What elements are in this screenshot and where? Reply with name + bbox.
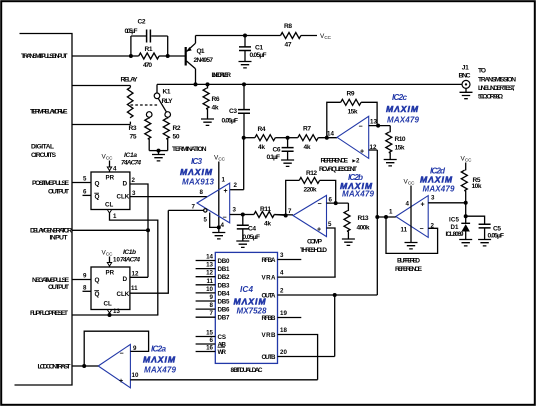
svg-text:TO: TO <box>478 68 486 75</box>
stub IC1a pin6 Qbar <box>83 194 92 196</box>
transistor Q1 2N4957 <box>185 47 187 66</box>
svg-text:0.05µF: 0.05µF <box>250 52 267 59</box>
stub RFBB <box>278 317 302 319</box>
junction IC2b pin7/R12 feedback <box>284 214 288 218</box>
svg-text:ΜΛΧΙΜ: ΜΛΧΙΜ <box>180 167 213 177</box>
ground C5 <box>478 240 491 246</box>
IC3 pin7 inversion bubble <box>204 209 207 212</box>
svg-text:LINE DRIVER: LINE DRIVER <box>212 72 232 79</box>
IC4 pin 16 WR <box>196 351 216 353</box>
ground D1 <box>459 240 472 246</box>
svg-text:DB5: DB5 <box>218 299 231 306</box>
svg-text:Q: Q <box>95 277 100 284</box>
svg-text:REFERENCE: REFERENCE <box>395 266 423 273</box>
svg-text:20: 20 <box>280 349 287 356</box>
svg-text:Q: Q <box>95 194 100 201</box>
wire FLIP-FLOP RESET <box>72 314 158 316</box>
resistor R1 <box>139 53 159 59</box>
svg-text:50Ω OR 93Ω: 50Ω OR 93Ω <box>478 93 504 100</box>
svg-text:MAX479: MAX479 <box>423 185 456 194</box>
op-amp IC3 triangle <box>197 183 230 223</box>
svg-text:1: 1 <box>389 209 393 216</box>
wire R12 feedback right <box>320 180 336 203</box>
op-amp IC2d triangle <box>396 196 428 238</box>
junction R3/R2 <box>157 149 161 153</box>
svg-text:15: 15 <box>206 330 213 337</box>
wire TRANSMIT PULSE INPUT <box>72 55 131 57</box>
wire IC2c pin12 down to OUTA net <box>376 150 378 295</box>
resistor R11 4k <box>254 212 274 218</box>
resistor R7 4k <box>298 135 318 141</box>
svg-text:19: 19 <box>280 310 287 317</box>
DAC IC4 MX7528 box <box>215 252 277 363</box>
svg-text:−: − <box>223 215 227 222</box>
wire VRB down to IC2a pin10 <box>278 335 318 380</box>
svg-text:470: 470 <box>143 62 152 69</box>
junction IC2a output/feedback <box>82 364 86 368</box>
wire VRA to IC2b pin5 <box>278 276 336 278</box>
svg-text:NEGATIVE PULSE: NEGATIVE PULSE <box>32 277 69 284</box>
svg-text:14: 14 <box>327 131 334 138</box>
svg-text:Q1: Q1 <box>197 48 205 55</box>
svg-text:CL: CL <box>105 202 113 209</box>
svg-text:10: 10 <box>132 372 139 379</box>
junction IC2b output/feedback <box>334 201 338 205</box>
wire R11 to IC2b pin7 <box>274 214 285 217</box>
wire IC2b output <box>327 202 349 204</box>
svg-text:VCC: VCC <box>102 250 114 257</box>
svg-text:PR: PR <box>106 270 115 277</box>
svg-text:VCC: VCC <box>214 155 226 162</box>
svg-text:8: 8 <box>83 285 87 292</box>
svg-text:OUTA: OUTA <box>262 292 277 299</box>
Q1 emitter arrow <box>187 47 192 52</box>
node C2/R1 left <box>129 54 133 58</box>
svg-text:IC3: IC3 <box>191 157 202 166</box>
svg-text:Q: Q <box>95 181 100 188</box>
svg-text:4: 4 <box>221 222 225 229</box>
svg-text:MAX479: MAX479 <box>144 366 177 375</box>
svg-text:11: 11 <box>401 227 408 234</box>
wire IC1a CLK stub <box>130 196 133 198</box>
svg-text:TRANSMIT PULSE INPUT: TRANSMIT PULSE INPUT <box>21 53 68 60</box>
svg-text:6: 6 <box>83 189 87 196</box>
resistor R10 15k <box>389 126 391 133</box>
svg-text:RELAY: RELAY <box>121 76 139 83</box>
junction R6/main line <box>206 82 210 86</box>
wire IC2b pin5 down to VRA <box>327 228 336 277</box>
wire IC3 pin8 output to IC1a CLK <box>133 196 207 198</box>
svg-text:−: − <box>318 201 322 208</box>
svg-text:74AC74: 74AC74 <box>120 257 140 264</box>
svg-text:CLK: CLK <box>117 291 130 298</box>
svg-text:CS: CS <box>218 334 227 341</box>
IC4 pin 6 A/B <box>196 343 216 345</box>
svg-text:8-BIT DUAL DAC: 8-BIT DUAL DAC <box>231 367 264 374</box>
junction IC3 pin3/C4/R11 <box>241 213 245 217</box>
svg-text:POSITIVE PULSE: POSITIVE PULSE <box>32 180 69 187</box>
IC1b CL bubble pin13 <box>107 310 111 314</box>
wire C3 to node row <box>243 113 245 138</box>
svg-text:1: 1 <box>113 213 117 220</box>
svg-text:−: − <box>359 123 363 130</box>
wire IC2c pin12 <box>369 149 378 151</box>
svg-text:MAX479: MAX479 <box>387 116 420 125</box>
wire top rail <box>196 35 281 37</box>
svg-text:4k: 4k <box>264 221 271 228</box>
junction Q1 emitter/main line <box>194 82 198 86</box>
wire R8 to Vcc <box>301 35 317 37</box>
ground C4 <box>236 241 249 247</box>
ground R13 <box>342 239 355 245</box>
svg-text:18: 18 <box>280 327 287 334</box>
wire OUTA to reference net <box>278 294 378 296</box>
svg-text:4k: 4k <box>258 144 265 151</box>
junction IC2c output/feedback <box>376 124 380 128</box>
wire IC1a CL pin1 to reset net <box>110 213 158 315</box>
wire main line to BNC <box>157 83 462 85</box>
svg-text:TRANSMISSION: TRANSMISSION <box>478 76 516 83</box>
wire LCD contrast to IC2a output <box>84 365 98 367</box>
svg-text:13: 13 <box>113 308 120 315</box>
wire IC3 pin7 to IC1b CLK chain <box>168 209 203 211</box>
Q1 lower lead <box>187 61 196 69</box>
svg-text:+: + <box>360 148 364 155</box>
svg-text:DB6: DB6 <box>218 307 231 314</box>
svg-text:14: 14 <box>206 254 213 261</box>
BNC connector J1 <box>462 80 470 88</box>
svg-text:9: 9 <box>210 294 214 301</box>
wire IC2a feedback pin9 to output <box>84 331 148 366</box>
wire relay coil bottom (TERM RELAY DRIVE) <box>72 124 130 126</box>
svg-text:RCVR QUIESCENT: RCVR QUIESCENT <box>319 166 357 173</box>
svg-text:3: 3 <box>431 195 435 202</box>
wire to R11 <box>243 214 254 216</box>
capacitor C5 <box>479 224 491 228</box>
svg-text:47: 47 <box>285 42 292 49</box>
junction C3/R4/IC3 pin2 <box>242 136 246 140</box>
ground IC3 <box>212 233 225 239</box>
svg-text:RLY: RLY <box>162 98 174 105</box>
junction reset/IC1b pin13 <box>108 313 112 317</box>
digital-circuits bus bracket <box>15 34 73 386</box>
svg-text:OUTPUT: OUTPUT <box>48 189 70 196</box>
svg-text:INPUT: INPUT <box>50 234 69 241</box>
svg-text:CIRCUITS: CIRCUITS <box>31 152 57 159</box>
svg-text:WR: WR <box>218 349 227 356</box>
wire IC3 pin3 to R11/C4 <box>230 214 243 216</box>
resistor R12 220k <box>299 177 319 183</box>
svg-text:DB3: DB3 <box>218 282 231 289</box>
svg-text:VCC: VCC <box>461 156 473 163</box>
resistor R2 50 <box>167 117 169 118</box>
svg-text:DB7: DB7 <box>218 315 231 322</box>
svg-text:0.05µF: 0.05µF <box>222 117 239 124</box>
svg-text:+: + <box>224 188 228 195</box>
IC4 pin 15 CS <box>196 336 216 338</box>
svg-text:LCD CONTRAST: LCD CONTRAST <box>38 363 72 370</box>
op-amp IC2c triangle <box>337 116 369 158</box>
junction C1/top rail <box>243 34 247 38</box>
IC1a PR bubble <box>107 167 111 171</box>
svg-text:+: + <box>421 202 425 209</box>
wire OUTB <box>278 356 335 358</box>
wire relay coil top <box>72 85 130 87</box>
ground IC2d pin11 <box>405 243 418 249</box>
wire C2 left leg <box>130 36 132 56</box>
svg-text:74AC74: 74AC74 <box>121 160 141 167</box>
svg-text:R9: R9 <box>347 91 355 98</box>
IC4 pin 11 DB3 <box>196 284 216 286</box>
svg-text:D: D <box>123 181 128 188</box>
wire LCD CONTRAST <box>72 365 84 367</box>
resistor R5 10k <box>465 163 467 171</box>
svg-text:2: 2 <box>234 182 238 189</box>
svg-text:VCC: VCC <box>102 154 114 161</box>
svg-text:−: − <box>120 351 124 358</box>
svg-text:R4: R4 <box>258 126 266 133</box>
svg-text:PR: PR <box>106 175 115 182</box>
svg-text:50: 50 <box>173 134 180 141</box>
svg-text:−: − <box>420 226 424 233</box>
svg-text:MAX479: MAX479 <box>342 190 375 199</box>
svg-text:CLK: CLK <box>117 194 130 201</box>
svg-text:12: 12 <box>206 270 213 277</box>
svg-text:5: 5 <box>204 217 208 224</box>
svg-text:R8: R8 <box>284 23 292 30</box>
ground termination resistors <box>152 155 165 161</box>
wire R1 to node <box>159 55 168 57</box>
svg-text:1: 1 <box>222 177 226 184</box>
svg-text:TERM RELAY DRIVE: TERM RELAY DRIVE <box>30 108 68 115</box>
svg-text:MAX913: MAX913 <box>182 178 215 187</box>
svg-text:D: D <box>123 276 128 283</box>
svg-text:DB2: DB2 <box>218 274 231 281</box>
wire IC1b pin10 PR <box>109 257 111 263</box>
svg-text:C4: C4 <box>248 226 256 233</box>
svg-text:VCC: VCC <box>404 179 416 186</box>
junction IC2d output/OUTA vertical <box>375 215 379 219</box>
wire IC2c output <box>369 125 391 127</box>
svg-text:3: 3 <box>132 190 136 197</box>
svg-text:ΜΛΧΙΜ: ΜΛΧΙΜ <box>420 175 453 185</box>
wire to C5 <box>466 216 485 224</box>
svg-text:15k: 15k <box>395 145 405 152</box>
wire node row <box>244 137 255 139</box>
svg-text:BNC: BNC <box>459 73 471 80</box>
wire R9 feedback right <box>361 102 377 125</box>
ground C1 <box>239 62 252 68</box>
wire IC2d output to OUTA net <box>377 216 396 218</box>
svg-text:7: 7 <box>210 310 214 317</box>
svg-text:R1: R1 <box>145 46 153 53</box>
junction R7/R9 feedback/IC2c pin14 <box>325 136 329 140</box>
IC4 pin 13 DB1 <box>196 268 216 270</box>
wire DELAY GENERATOR INPUT <box>72 229 148 231</box>
ground R10 <box>384 160 397 166</box>
svg-text:5: 5 <box>328 221 332 228</box>
diode D1 ICL8069 <box>461 222 470 224</box>
svg-text:DIGITAL: DIGITAL <box>31 144 54 151</box>
capacitor C4 0.05uF <box>242 215 244 226</box>
junction C3/main line <box>242 82 246 86</box>
svg-text:ΜΛΧΙΜ: ΜΛΧΙΜ <box>143 355 176 365</box>
svg-text:R13: R13 <box>358 215 369 222</box>
wire IC1b D <box>130 276 148 278</box>
svg-text:15k: 15k <box>348 108 358 115</box>
svg-text:THRESHOLD: THRESHOLD <box>300 247 327 254</box>
svg-text:C1: C1 <box>255 44 263 51</box>
svg-text:11: 11 <box>206 278 213 285</box>
svg-text:4: 4 <box>280 270 284 277</box>
wire IC3 pin5 to ground <box>210 213 219 228</box>
node C2/R1 right <box>166 54 170 58</box>
relay actuation dashed link <box>131 104 159 106</box>
svg-text:R6: R6 <box>212 96 220 103</box>
relay contact B (to R2) <box>165 112 171 118</box>
svg-text:IC2a: IC2a <box>151 345 166 354</box>
svg-text:R2: R2 <box>173 125 181 132</box>
relay contact A (to R3) <box>146 112 152 118</box>
svg-text:11: 11 <box>131 285 138 292</box>
relay armature <box>158 98 166 112</box>
wire Q1 to top rail <box>195 36 197 44</box>
svg-text:4k: 4k <box>304 144 311 151</box>
svg-text:8: 8 <box>210 302 214 309</box>
svg-text:BUFFERED: BUFFERED <box>397 258 420 265</box>
svg-text:220k: 220k <box>304 186 317 193</box>
svg-text:J1: J1 <box>462 65 469 72</box>
svg-text:IC4: IC4 <box>240 285 253 294</box>
stub IC1b pin8 Qbar <box>83 290 92 292</box>
IC4 pin 14 DB0 <box>196 260 216 262</box>
wire relay pole <box>156 84 158 93</box>
svg-text:400k: 400k <box>357 224 370 231</box>
Q1 upper lead <box>187 43 196 51</box>
IC4 pin 8 DB6 <box>196 308 216 310</box>
svg-text:7: 7 <box>192 204 196 211</box>
svg-text:COMP: COMP <box>307 239 323 246</box>
wire IC2d pin3 to reference node <box>428 202 466 204</box>
wire R9 feedback left <box>327 102 341 137</box>
wire OUTA to OUTB <box>334 295 336 357</box>
wire top rail to C1 <box>244 36 246 47</box>
stub RFBA <box>278 259 302 261</box>
svg-text:7: 7 <box>288 208 292 215</box>
svg-text:R10: R10 <box>395 136 406 143</box>
svg-text:10k: 10k <box>472 183 482 190</box>
svg-text:DB0: DB0 <box>218 258 231 265</box>
svg-text:VCC: VCC <box>320 33 332 40</box>
op-amp IC2b triangle <box>293 195 327 236</box>
svg-text:RFBA: RFBA <box>262 257 277 264</box>
svg-text:8: 8 <box>200 189 204 196</box>
capacitor C2 <box>147 30 151 43</box>
svg-text:10: 10 <box>206 286 213 293</box>
capacitor C1 <box>239 47 251 51</box>
svg-text:▸2: ▸2 <box>352 158 361 165</box>
resistor R6 4k <box>207 84 209 88</box>
junction delay-gen/D-chain <box>146 228 150 232</box>
capacitor C6 0.1uF <box>287 138 289 148</box>
svg-text:4: 4 <box>113 166 117 173</box>
wire Q1 to main line <box>195 69 197 85</box>
svg-text:C6: C6 <box>273 147 281 154</box>
svg-text:R3: R3 <box>129 125 137 132</box>
wire POSITIVE PULSE OUTPUT to IC1a pin5 <box>72 182 91 184</box>
svg-text:0.05µF: 0.05µF <box>125 28 138 35</box>
svg-text:ICL8069: ICL8069 <box>446 231 465 238</box>
wire node to Q1 base <box>168 55 185 57</box>
flip-flop IC1a 74AC74 box <box>91 172 130 210</box>
resistor R8 <box>281 33 301 39</box>
wire R12 feedback left <box>286 180 300 215</box>
svg-text:Q: Q <box>95 291 100 298</box>
wire NEGATIVE PULSE OUTPUT to IC1b pin9 <box>72 279 91 281</box>
svg-text:CL: CL <box>104 301 112 308</box>
svg-text:4k: 4k <box>212 105 219 112</box>
svg-text:0.1µF: 0.1µF <box>267 154 281 161</box>
svg-text:10: 10 <box>113 257 120 264</box>
svg-text:2: 2 <box>280 288 284 295</box>
wire main line to C3 <box>243 84 245 109</box>
svg-text:C2: C2 <box>138 19 146 26</box>
relay pole contact <box>154 93 160 99</box>
op-amp IC2a triangle <box>98 344 130 387</box>
svg-text:2: 2 <box>132 177 136 184</box>
relay K1 coil <box>129 86 131 88</box>
junction IC2d feedback/output <box>384 215 388 219</box>
wire IC2d Vcc pin4/pin11 <box>410 186 412 243</box>
svg-text:DB4: DB4 <box>218 290 231 297</box>
wire IC2a pin10 to VRB net <box>130 379 317 381</box>
capacitor C3 <box>238 110 250 114</box>
svg-text:13: 13 <box>370 119 377 126</box>
svg-text:75: 75 <box>130 134 137 141</box>
svg-text:+: + <box>119 378 123 385</box>
resistor R13 400k <box>347 203 349 211</box>
svg-text:DELAY GENERATOR: DELAY GENERATOR <box>30 227 72 234</box>
junction R4/C6/R7 <box>286 136 290 140</box>
svg-text:0.05µF: 0.05µF <box>488 232 505 239</box>
svg-text:3: 3 <box>233 207 237 214</box>
svg-text:3: 3 <box>280 252 284 259</box>
resistor R4 4k <box>255 135 275 141</box>
overline WR <box>218 346 226 348</box>
wire C2 right leg <box>167 36 169 56</box>
ground C6 <box>281 160 294 166</box>
svg-text:IC1a: IC1a <box>124 152 137 159</box>
wire node to IC3 pin2 <box>243 138 245 190</box>
flip-flop IC1b 74AC74 box <box>91 267 130 310</box>
svg-text:13: 13 <box>206 262 213 269</box>
svg-text:K1: K1 <box>163 89 171 96</box>
svg-text:LINE UNDER TEST,: LINE UNDER TEST, <box>478 85 515 92</box>
junction IC3 pin4/pin5 <box>217 225 221 229</box>
svg-text:REFERENCE: REFERENCE <box>321 158 349 165</box>
svg-text:R7: R7 <box>303 126 311 133</box>
wire IC2d feedback pin2 to output <box>386 217 438 253</box>
svg-text:IC5: IC5 <box>449 217 460 224</box>
ground BNC shell <box>460 92 473 98</box>
svg-text:6: 6 <box>210 337 214 344</box>
IC4 pin 12 DB2 <box>196 276 216 278</box>
IC4 pin 9 DB5 <box>196 300 216 302</box>
svg-text:OUTPUT: OUTPUT <box>48 284 70 291</box>
svg-text:9: 9 <box>83 273 87 280</box>
svg-text:TERMINATION: TERMINATION <box>172 146 207 153</box>
svg-text:R11: R11 <box>260 206 271 213</box>
